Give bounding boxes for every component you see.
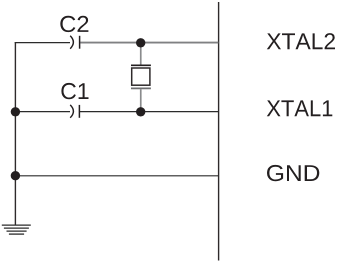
wire: XTAL2 line, left segment to C2: [15, 42, 70, 44]
label C2: [60, 16, 88, 32]
wire: XTAL2 line, C2 to device pin: [80, 42, 218, 44]
wire: XTAL1 line, C1 to device pin: [80, 111, 219, 113]
capacitor C2: [70, 36, 79, 49]
label C1: [61, 83, 88, 99]
label XTAL1: [267, 100, 333, 116]
wire: left vertical bus from XTAL2 corner down to ground: [14, 42, 16, 225]
wire: XTAL1 line, left segment to C1: [15, 111, 70, 113]
capacitor C1: [70, 105, 79, 118]
label XTAL2: [267, 33, 335, 49]
junction node: left bus / GND wire: [11, 171, 20, 180]
wire: GND line: [15, 175, 219, 177]
crystal Y1: [131, 43, 151, 112]
ground: [2, 225, 31, 234]
device pin edge (right vertical line): [218, 2, 220, 261]
label GND: [267, 165, 319, 181]
junction node: XTAL2 / crystal top: [136, 38, 145, 47]
junction node: left bus / XTAL1 wire: [11, 107, 20, 116]
junction node: XTAL1 / crystal bottom: [136, 107, 145, 116]
